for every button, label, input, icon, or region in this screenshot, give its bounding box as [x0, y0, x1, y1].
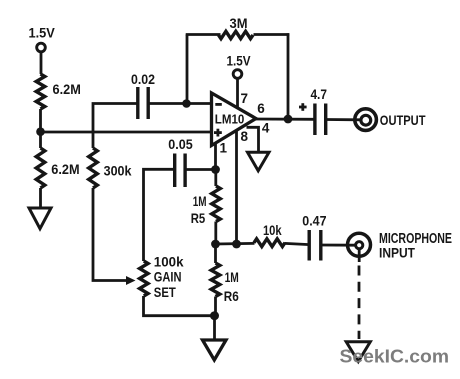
node R6 bottom	[210, 311, 219, 320]
capacitor C1 0.02	[131, 71, 155, 119]
ground mic shield	[346, 342, 370, 362]
wire feedback top right	[254, 33, 290, 36]
node output/feedback	[284, 115, 293, 124]
wire pin 8 down to mic line	[235, 131, 238, 245]
wire riser to 0.02 cap	[93, 104, 137, 149]
potentiometer 100k GAIN SET	[140, 254, 184, 301]
wire R1 to R2	[39, 109, 42, 148]
wire feedback top left	[186, 33, 221, 36]
wire R2 to ground	[39, 188, 42, 208]
svg-text:1.5V: 1.5V	[29, 25, 56, 41]
svg-text:SeekIC.com: SeekIC.com	[340, 347, 450, 367]
svg-text:100k: 100k	[154, 254, 184, 270]
wire feedback left vertical	[186, 35, 189, 104]
svg-text:0.47: 0.47	[302, 212, 326, 228]
ground left rail	[29, 208, 51, 229]
svg-text:8: 8	[240, 129, 248, 144]
wire dashed mic shield	[358, 266, 361, 340]
svg-text:3M: 3M	[230, 15, 248, 31]
wire R6 leads	[214, 244, 217, 263]
terminal 1.5V op-amp supply	[227, 53, 252, 79]
svg-text:R6: R6	[224, 288, 239, 304]
resistor R5 1M	[191, 186, 221, 226]
svg-text:0.02: 0.02	[131, 71, 155, 87]
capacitor C2 0.05	[168, 136, 193, 187]
connector output jack	[355, 109, 377, 131]
resistor R4 300k	[89, 148, 132, 188]
wire pin 4 to ground	[247, 127, 259, 151]
wire R5 leads	[214, 170, 217, 187]
ground pin 4	[248, 152, 270, 171]
node pin1/C2/R5	[211, 165, 220, 174]
resistor R6 1M	[211, 263, 239, 304]
svg-text:7: 7	[240, 91, 248, 106]
node R5/R6	[211, 240, 220, 249]
node inverting input	[182, 99, 191, 108]
wire C1 to inverting node	[148, 102, 187, 105]
svg-text:LM10: LM10	[215, 111, 245, 126]
op-amp U1 LM10	[212, 93, 257, 146]
wire 300k to wiper arm	[93, 188, 128, 281]
svg-text:0.05: 0.05	[168, 136, 193, 152]
svg-text:6.2M: 6.2M	[51, 161, 79, 177]
wire to bottom ground	[213, 316, 216, 339]
svg-text:R5: R5	[191, 210, 206, 226]
svg-text:1.5V: 1.5V	[227, 53, 252, 69]
wire node to op-amp - input	[187, 102, 212, 105]
wire pin 1 down	[214, 143, 217, 170]
svg-text:6.2M: 6.2M	[53, 81, 81, 97]
capacitor C4 0.47	[302, 212, 326, 260]
svg-text:4: 4	[262, 121, 270, 136]
wire feedback right vertical	[287, 33, 290, 119]
resistor R1 6.2M upper	[36, 74, 81, 109]
wire C2 to pin1 node	[185, 168, 215, 171]
label MICROPHONE INPUT	[379, 231, 452, 261]
wire bias rail to op-amp + input	[41, 131, 212, 134]
svg-text:INPUT: INPUT	[379, 245, 415, 261]
svg-text:4.7: 4.7	[310, 86, 327, 102]
wire mic shield solid stub	[358, 248, 361, 262]
svg-text:1M: 1M	[193, 193, 207, 209]
connector microphone jack	[348, 233, 371, 256]
terminal +1.5V left battery	[29, 25, 56, 52]
wire 10k to C4	[285, 243, 310, 244]
wire C3 to output jack	[326, 118, 361, 121]
svg-text:1: 1	[219, 140, 227, 155]
svg-text:SET: SET	[154, 284, 176, 300]
ground bottom center	[203, 340, 227, 360]
svg-text:10k: 10k	[263, 222, 282, 238]
svg-text:300k: 300k	[104, 162, 132, 178]
resistor R3 3M feedback	[219, 15, 254, 39]
wiper arrow into pot	[126, 276, 136, 285]
svg-text:OUTPUT: OUTPUT	[380, 112, 426, 128]
svg-text:6: 6	[257, 101, 265, 116]
wire mic row to 10k	[216, 242, 255, 245]
svg-text:GAIN: GAIN	[154, 269, 182, 285]
node left rail junction	[36, 127, 45, 136]
node pin8/mic line	[232, 240, 241, 249]
wire pin 7 supply	[236, 78, 239, 108]
wire C4 to mic jack	[321, 244, 355, 247]
svg-text:1M: 1M	[225, 269, 239, 285]
capacitor C3 4.7 output	[299, 86, 327, 135]
wire 0.05 branch elbow / pot top lead	[144, 169, 175, 261]
wire pot bottom to R6 node	[144, 296, 215, 316]
wire battery to R1	[40, 52, 43, 74]
resistor R2 6.2M lower	[36, 148, 79, 188]
resistor R7 10k	[254, 222, 285, 247]
wire output pin 6	[254, 118, 315, 121]
